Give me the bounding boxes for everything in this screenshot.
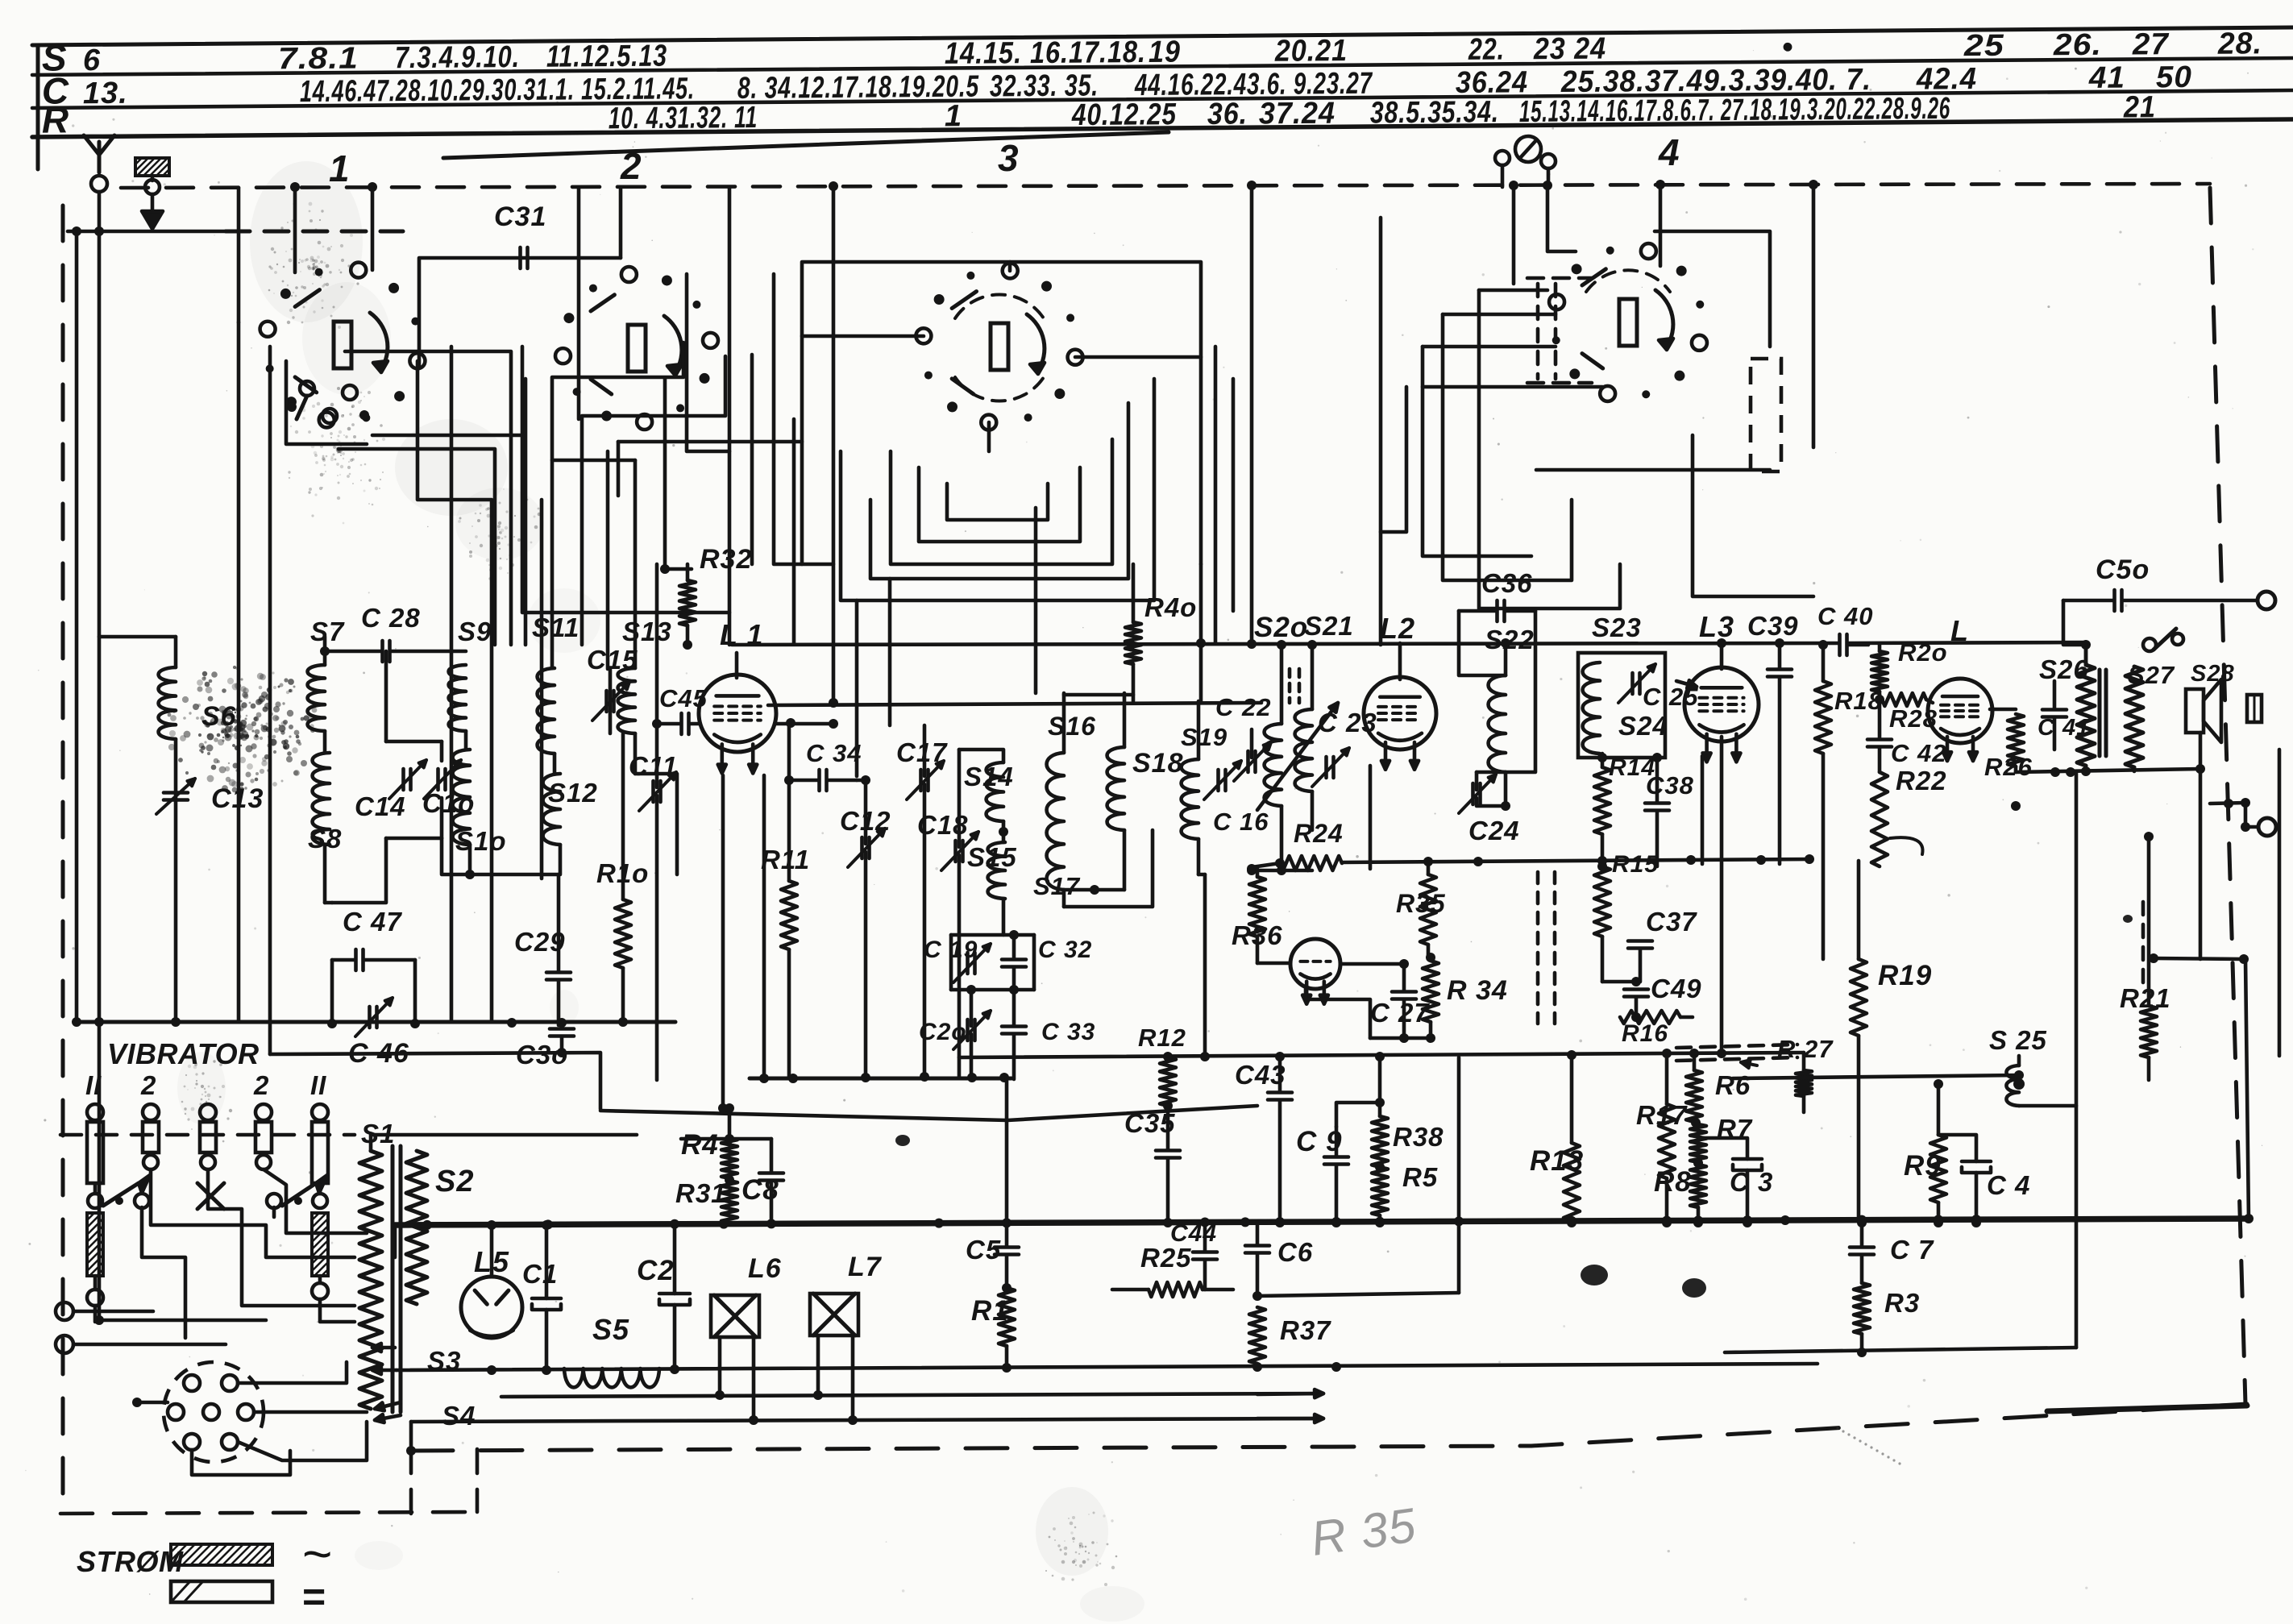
- svg-text:II: II: [85, 1070, 102, 1100]
- resistor R4: [721, 1138, 737, 1178]
- svg-text:R4o: R4o: [1144, 592, 1197, 622]
- C27 bottom wire: [1370, 1036, 1431, 1040]
- svg-text:C 47: C 47: [343, 907, 402, 937]
- svg-text:R: R: [42, 98, 70, 140]
- svg-text:38.5.35.34.: 38.5.35.34.: [1370, 95, 1499, 130]
- svg-text:C14: C14: [355, 791, 406, 821]
- ground bus upper: [77, 1020, 675, 1024]
- capacitor C35: [1156, 1148, 1180, 1153]
- coil S8: [313, 753, 330, 845]
- svg-text:28.: 28.: [2217, 27, 2262, 60]
- S22 wires: [1504, 772, 1508, 806]
- antenna: [84, 135, 114, 172]
- svg-text:R19: R19: [1878, 960, 1932, 991]
- output switch: [2143, 638, 2156, 651]
- capacitor C28: [380, 641, 384, 662]
- svg-text:S7: S7: [310, 617, 345, 646]
- svg-text:C11: C11: [629, 751, 678, 781]
- variable capacitor C14: [401, 769, 405, 790]
- svg-text:C37: C37: [1646, 907, 1697, 937]
- svg-text:R13: R13: [1530, 1145, 1584, 1177]
- capacitor C40: [1838, 634, 1842, 655]
- svg-text:C39: C39: [1747, 611, 1799, 641]
- svg-text:C49: C49: [1651, 974, 1702, 1003]
- svg-text:S2o: S2o: [1254, 612, 1308, 643]
- svg-text:37.24: 37.24: [1259, 97, 1336, 131]
- coil S16: [1047, 753, 1064, 890]
- svg-text:R25: R25: [1140, 1243, 1192, 1273]
- resistor R32: [679, 580, 696, 625]
- resistor R10: [615, 899, 631, 968]
- resistor R38: [1372, 1116, 1388, 1167]
- svg-text:C2: C2: [637, 1255, 675, 1286]
- resistor R5: [1372, 1167, 1388, 1215]
- svg-text:36.: 36.: [1207, 98, 1248, 131]
- rotary switch W1 sub-box: [286, 361, 367, 444]
- capacitor C3: [1733, 1157, 1762, 1161]
- variable capacitor C46: [368, 1007, 372, 1028]
- svg-text:S4: S4: [442, 1401, 476, 1431]
- capacitor C36: [1495, 600, 1499, 621]
- R38 top wire: [1378, 1056, 1382, 1103]
- IF can dashes: [1536, 872, 1540, 1024]
- C50 out cap: [2112, 590, 2116, 611]
- svg-text:R21: R21: [2120, 983, 2171, 1013]
- fuse hatched left: [87, 1213, 103, 1276]
- resistor R7: [1690, 1124, 1706, 1162]
- variable capacitor C10: [436, 769, 440, 790]
- svg-text:C8: C8: [741, 1174, 779, 1206]
- svg-text:R26: R26: [1984, 753, 2033, 781]
- svg-text:C 3: C 3: [1730, 1167, 1773, 1197]
- capacitor C37: [1628, 939, 1652, 943]
- svg-text:R32: R32: [700, 544, 752, 575]
- svg-text:C 42: C 42: [1891, 739, 1946, 767]
- resistor R18: [1815, 681, 1831, 754]
- dashed R27 link: [1676, 1045, 1797, 1048]
- svg-text:1: 1: [329, 147, 351, 189]
- capacitor C47: [354, 949, 358, 970]
- svg-text:II: II: [310, 1070, 326, 1100]
- input terminals: [56, 1302, 73, 1320]
- svg-text:C6: C6: [1277, 1237, 1313, 1267]
- svg-text:R37: R37: [1280, 1315, 1331, 1345]
- wire 1335 right: [1733, 1075, 2019, 1078]
- C6 link wire: [1257, 1293, 1459, 1296]
- svg-text:C 27: C 27: [1370, 998, 1430, 1028]
- rotary switch W3: [1068, 350, 1083, 365]
- svg-text:C 41: C 41: [2038, 715, 2090, 741]
- svg-text:27: 27: [2132, 27, 2170, 61]
- S4 arrows: [375, 1402, 401, 1409]
- coil S23: [1583, 662, 1600, 754]
- svg-text:S28: S28: [2191, 661, 2235, 687]
- capacitor C29: [546, 970, 571, 974]
- x2136 drop: [1720, 737, 1724, 1053]
- svg-text:L: L: [1950, 614, 1969, 647]
- resistor R16: [1620, 1011, 1680, 1024]
- resistor R11: [781, 881, 797, 949]
- svg-text:•: •: [1782, 31, 1794, 64]
- wire 1338 bus: [750, 1077, 1011, 1081]
- svg-text:S19: S19: [1181, 723, 1228, 751]
- vibrator dashed box: [60, 1512, 477, 1514]
- variable capacitor C12: [860, 837, 864, 858]
- step wire mid: [270, 1053, 600, 1109]
- svg-text:C2o: C2o: [919, 1019, 967, 1045]
- wire C5R25: [1007, 1287, 1149, 1289]
- svg-text:S5: S5: [592, 1313, 629, 1346]
- svg-text:S21: S21: [1304, 611, 1354, 641]
- antenna ground terminal: [135, 158, 169, 176]
- wires rotary2: [577, 188, 581, 419]
- svg-text:C 32: C 32: [1038, 937, 1092, 963]
- wire S7S8 col: [323, 731, 327, 753]
- capacitor C7: [1850, 1245, 1874, 1249]
- capacitor C27: [1392, 990, 1416, 994]
- transformer core: [391, 1146, 395, 1412]
- svg-text:26.: 26.: [2053, 28, 2102, 62]
- svg-text:2: 2: [620, 145, 642, 187]
- S2 tap wire: [417, 1223, 427, 1227]
- resistor R31: [721, 1181, 737, 1223]
- bus left end: [393, 1225, 397, 1257]
- svg-text:R38: R38: [1393, 1122, 1444, 1152]
- V1 cathode drops: [721, 775, 725, 1109]
- transformer top wire: [371, 1135, 637, 1151]
- resistor R14: [1594, 767, 1610, 834]
- svg-text:S6: S6: [201, 701, 237, 732]
- wire L2 plate drop: [1369, 766, 1373, 869]
- svg-text:S9: S9: [458, 617, 492, 646]
- capacitor C1: [532, 1297, 561, 1301]
- rotary switch W4: [1692, 335, 1707, 351]
- meter lamp: [1515, 136, 1541, 162]
- resistor R21: [2141, 1006, 2157, 1057]
- resistor R6: [1686, 1070, 1702, 1122]
- C47 C46 box: [330, 960, 334, 1024]
- svg-text:C 22: C 22: [1215, 693, 1271, 721]
- fuse hatched right: [312, 1213, 328, 1276]
- svg-text:R2o: R2o: [1898, 638, 1948, 667]
- svg-text:L7: L7: [848, 1252, 883, 1282]
- svg-text:C 34: C 34: [806, 739, 862, 767]
- feeder nest wires: [345, 351, 511, 645]
- rotary W4 dashed cans: [1536, 284, 1540, 379]
- svg-text:R35: R35: [1396, 889, 1446, 918]
- coupling arrow S20S21: [1257, 703, 1338, 810]
- capacitor C8: [759, 1171, 783, 1175]
- coil S6: [159, 667, 176, 739]
- svg-text:C 16: C 16: [1213, 808, 1269, 836]
- svg-text:25: 25: [1963, 29, 2004, 63]
- resistor R35: [1420, 874, 1436, 945]
- variable capacitor C23: [1324, 757, 1328, 778]
- svg-text:C45: C45: [659, 684, 708, 712]
- tube V5 L4: [1928, 679, 1992, 743]
- right dashed border: [2210, 188, 2245, 1404]
- antenna coupling wire: [68, 230, 226, 234]
- L5 top wire: [490, 1225, 494, 1277]
- capacitor C9: [1324, 1155, 1348, 1159]
- S23 box: [1578, 653, 1665, 758]
- svg-text:R9: R9: [1904, 1150, 1942, 1182]
- choke L7: [810, 1294, 858, 1335]
- resistor R22: [1871, 772, 1888, 866]
- coil S13: [618, 668, 635, 733]
- coil S5: [564, 1369, 659, 1387]
- capacitor C49: [1624, 987, 1648, 991]
- svg-text:C13: C13: [211, 783, 264, 814]
- svg-text:4: 4: [1658, 131, 1680, 173]
- caps C20 C33: [966, 1020, 970, 1040]
- svg-text:C17: C17: [896, 737, 948, 767]
- resistor R37: [1249, 1307, 1265, 1364]
- coil S18: [1107, 747, 1124, 830]
- speckle trail: [1836, 1427, 1838, 1429]
- resistor R17: [1659, 1104, 1675, 1178]
- svg-text:R8: R8: [1654, 1166, 1692, 1198]
- boundary drop x1553: [1250, 188, 1254, 644]
- coil S12: [543, 774, 560, 845]
- S25 pickup: [2006, 1065, 2019, 1106]
- svg-text:13.: 13.: [83, 77, 128, 110]
- resistor R3: [1854, 1283, 1870, 1334]
- svg-text:7.8.1: 7.8.1: [278, 42, 359, 77]
- extra verticals A: [750, 355, 754, 564]
- wires rotary3 frame: [802, 262, 1201, 564]
- svg-text:1: 1: [945, 99, 962, 133]
- svg-text:21: 21: [2123, 90, 2156, 124]
- variable capacitor C24: [1471, 783, 1475, 804]
- S19 wires: [1197, 701, 1201, 759]
- rotary switch W1: [409, 353, 425, 368]
- coil S11: [538, 668, 555, 754]
- svg-text:C 40: C 40: [1817, 602, 1873, 630]
- capacitor C45: [679, 713, 683, 734]
- svg-text:7.3.4.9.10.: 7.3.4.9.10.: [395, 40, 520, 75]
- variable capacitor C16: [1216, 770, 1220, 791]
- resistor R12: [1160, 1057, 1176, 1106]
- left vertical to bus: [75, 231, 79, 1022]
- svg-text:R3: R3: [1884, 1288, 1920, 1318]
- svg-text:C5: C5: [966, 1235, 1001, 1265]
- variable capacitor C18: [953, 841, 957, 862]
- resistor R9: [1930, 1135, 1946, 1202]
- mid arrow wire: [501, 1393, 1322, 1397]
- svg-text:S27: S27: [2128, 661, 2175, 689]
- capacitor C4: [1962, 1160, 1991, 1164]
- svg-text:R6: R6: [1715, 1070, 1751, 1100]
- reference table frame: [32, 27, 2293, 45]
- svg-text:S13: S13: [622, 617, 672, 646]
- L3 top wires: [1720, 643, 1724, 669]
- tube V4 L3: [1684, 667, 1759, 741]
- 7pin connector: [164, 1362, 264, 1462]
- S20 wires: [1280, 645, 1284, 724]
- wire x1063: [857, 779, 866, 783]
- vibrator switch left: [88, 1194, 102, 1208]
- svg-text:R24: R24: [1294, 819, 1344, 848]
- S26S27 bottom wires: [2084, 766, 2088, 771]
- wire C11 col: [655, 564, 659, 787]
- coil S19: [1182, 759, 1198, 839]
- coil S27: [2125, 667, 2143, 767]
- svg-text:=: =: [302, 1574, 326, 1619]
- svg-text:VIBRATOR: VIBRATOR: [107, 1037, 260, 1070]
- variable capacitor C22: [1246, 751, 1250, 772]
- svg-text:23 24: 23 24: [1533, 32, 1606, 67]
- S4 wire: [411, 1418, 1322, 1422]
- output terminal top: [2258, 592, 2275, 609]
- V3 wires: [1257, 962, 1290, 966]
- resistor R40: [1125, 622, 1141, 664]
- X mark: [197, 1183, 224, 1209]
- wire y875 grid: [768, 703, 1261, 705]
- antenna bottom wire: [99, 1319, 266, 1323]
- coil S7: [308, 665, 325, 731]
- svg-text:10. 4.31.32. 11: 10. 4.31.32. 11: [609, 101, 758, 135]
- tube V3: [1290, 939, 1340, 989]
- capacitor C43: [1268, 1090, 1292, 1094]
- tube V1: [699, 675, 776, 752]
- capacitor C41: [2042, 708, 2067, 712]
- decor-noise: [168, 202, 1118, 1586]
- svg-text:S2: S2: [435, 1165, 474, 1198]
- coil S10: [453, 750, 470, 845]
- capacitor C34: [817, 770, 821, 791]
- wire 1075 bus: [1342, 859, 1812, 862]
- top dash-dot section boundary: [121, 184, 2210, 188]
- svg-text:8. 34.12.17.18.19.20.5: 8. 34.12.17.18.19.20.5: [737, 70, 979, 106]
- svg-text:S24: S24: [1618, 711, 1668, 741]
- svg-text:L2: L2: [1380, 612, 1415, 645]
- resistor R24: [1280, 856, 1342, 870]
- vibrator S1 dashed line: [60, 1133, 355, 1137]
- svg-text:STRØM: STRØM: [77, 1545, 184, 1578]
- vibrator switch right: [267, 1194, 281, 1208]
- svg-text:41: 41: [2088, 61, 2125, 95]
- coil S21: [1295, 709, 1312, 791]
- variable capacitor C15: [604, 691, 609, 712]
- svg-text:S 25: S 25: [1989, 1025, 2047, 1055]
- svg-text:R12: R12: [1138, 1024, 1186, 1052]
- svg-text:C1: C1: [522, 1259, 558, 1289]
- wires rotary4 nest: [1379, 218, 1383, 645]
- power transformer S1 primary: [359, 1151, 382, 1409]
- capacitor C5: [995, 1245, 1019, 1249]
- main bus 1310: [959, 1053, 1804, 1057]
- svg-text:C44: C44: [1170, 1220, 1217, 1247]
- svg-text:S16: S16: [1048, 712, 1096, 741]
- S16S18 wires: [1062, 693, 1066, 753]
- svg-text:6: 6: [83, 44, 101, 77]
- svg-text:L6: L6: [748, 1253, 782, 1284]
- resistor R1: [999, 1288, 1015, 1346]
- svg-text:R4: R4: [681, 1129, 719, 1161]
- svg-text:C 33: C 33: [1041, 1019, 1095, 1045]
- R22 tail: [1890, 837, 1923, 854]
- S14 box wires: [959, 750, 1003, 762]
- svg-text:19: 19: [1149, 35, 1181, 69]
- capacitor C31: [518, 247, 522, 268]
- V5 plate wire: [1990, 708, 2016, 712]
- R14 wires: [1601, 754, 1605, 767]
- variable capacitor C25: [1630, 673, 1635, 694]
- wires rotary1: [293, 187, 297, 272]
- resistor R34: [1423, 961, 1439, 1022]
- coil S20: [1265, 724, 1282, 806]
- svg-text:14.15. 16.17.18.: 14.15. 16.17.18.: [945, 35, 1146, 71]
- svg-text:40.12.25: 40.12.25: [1071, 98, 1177, 132]
- coil S22: [1489, 675, 1506, 772]
- choke L6: [711, 1295, 759, 1337]
- long wire 1375: [600, 1106, 1257, 1120]
- svg-text:S14: S14: [964, 762, 1014, 791]
- coil S9: [449, 665, 466, 731]
- tube V2 L2: [1364, 677, 1436, 750]
- headphone jack: [2247, 695, 2262, 722]
- variable capacitor C11: [651, 781, 655, 802]
- svg-text:S1o: S1o: [455, 826, 507, 856]
- capacitor C44: [1193, 1250, 1217, 1254]
- capacitor C2: [659, 1292, 690, 1296]
- svg-text:C 28: C 28: [361, 603, 421, 633]
- resistor R28 horizontal: [1882, 693, 1926, 706]
- resistor R13: [1564, 1143, 1580, 1221]
- svg-text:50: 50: [2156, 60, 2192, 94]
- speaker SP: [2186, 689, 2204, 733]
- svg-text:R31: R31: [675, 1178, 727, 1208]
- svg-text:C31: C31: [494, 201, 546, 232]
- svg-text:C5o: C5o: [2096, 554, 2150, 585]
- svg-text:S15: S15: [967, 842, 1017, 872]
- capacitor C39: [1768, 667, 1792, 671]
- R4 C8 top link: [681, 1137, 771, 1141]
- bottom dashed border: [411, 1404, 2247, 1451]
- svg-text:2: 2: [140, 1070, 156, 1100]
- main ground bus: [395, 1219, 2249, 1225]
- left dashed border: [61, 206, 65, 1515]
- svg-text:R11: R11: [761, 845, 810, 874]
- resistor R20: [1871, 651, 1888, 692]
- R15 bottom wires: [1601, 937, 1605, 982]
- svg-text:2: 2: [253, 1070, 269, 1100]
- resistor R15: [1594, 866, 1610, 937]
- output transformer S26: [2077, 665, 2095, 766]
- svg-text:S26: S26: [2039, 654, 2089, 684]
- svg-text:S17: S17: [1033, 872, 1081, 900]
- coil S15: [988, 842, 1005, 899]
- capacitor C42: [1867, 737, 1892, 741]
- output terminal bottom: [2258, 818, 2276, 836]
- resistor R8: [1690, 1165, 1706, 1207]
- svg-text:S22: S22: [1485, 625, 1535, 654]
- svg-text:R1: R1: [971, 1295, 1009, 1327]
- variable capacitor C17: [919, 770, 923, 791]
- resistor R36: [1249, 877, 1265, 937]
- svg-text:S23: S23: [1592, 613, 1642, 642]
- svg-text:C36: C36: [1481, 568, 1533, 598]
- resistor R19: [1851, 959, 1867, 1036]
- svg-text:R 34: R 34: [1447, 975, 1508, 1006]
- S3 arrows: [372, 1346, 395, 1350]
- svg-text:S11: S11: [532, 613, 579, 642]
- svg-text:22.: 22.: [1468, 33, 1505, 67]
- svg-text:R17: R17: [1636, 1100, 1688, 1130]
- svg-text:11.12.5.13: 11.12.5.13: [546, 39, 667, 74]
- capacitor C38: [1645, 801, 1669, 805]
